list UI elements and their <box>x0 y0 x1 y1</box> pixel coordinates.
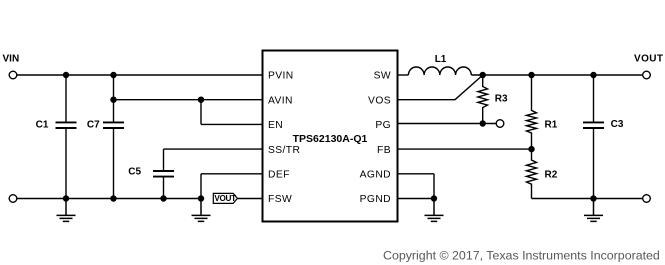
svg-text:EN: EN <box>268 120 283 131</box>
svg-text:C5: C5 <box>128 166 141 177</box>
svg-text:VOUT: VOUT <box>634 54 663 65</box>
svg-text:PGND: PGND <box>360 194 391 205</box>
svg-text:PVIN: PVIN <box>268 71 294 82</box>
svg-text:VOUT: VOUT <box>214 194 236 203</box>
svg-text:VIN: VIN <box>3 54 20 65</box>
svg-text:R2: R2 <box>545 169 558 180</box>
svg-text:R1: R1 <box>545 119 558 130</box>
svg-text:AVIN: AVIN <box>268 95 293 106</box>
svg-text:R3: R3 <box>495 94 508 105</box>
svg-text:FB: FB <box>377 145 391 156</box>
svg-text:C7: C7 <box>87 119 100 130</box>
svg-text:C3: C3 <box>611 119 624 130</box>
svg-text:TPS62130A-Q1: TPS62130A-Q1 <box>293 133 368 145</box>
svg-text:FSW: FSW <box>268 194 292 205</box>
svg-text:SW: SW <box>374 71 391 82</box>
svg-text:Copyright © 2017, Texas Instru: Copyright © 2017, Texas Instruments Inco… <box>383 248 660 262</box>
svg-text:L1: L1 <box>435 54 447 65</box>
svg-text:C1: C1 <box>36 119 49 130</box>
svg-text:AGND: AGND <box>360 170 391 181</box>
svg-text:SS/TR: SS/TR <box>268 145 300 156</box>
svg-text:VOS: VOS <box>368 95 391 106</box>
svg-text:PG: PG <box>375 120 391 131</box>
svg-text:DEF: DEF <box>268 170 290 181</box>
